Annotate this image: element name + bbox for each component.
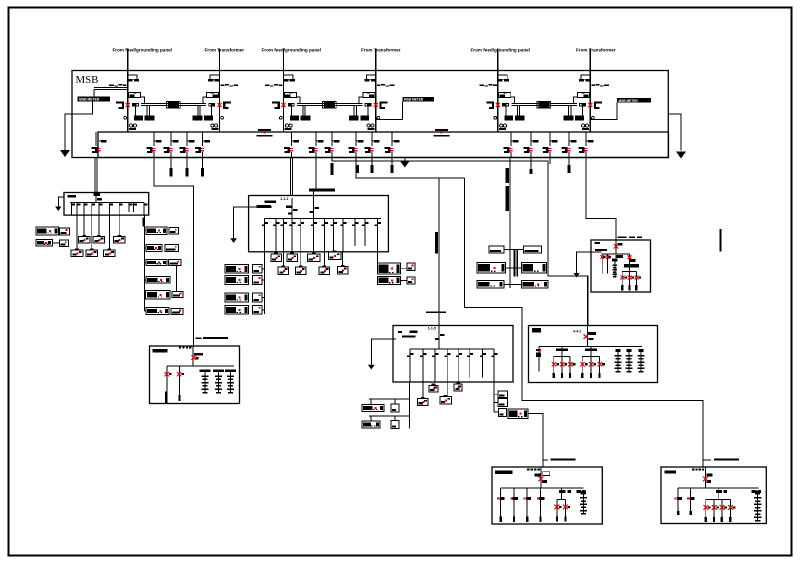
LP-F branch 1 <box>165 366 172 403</box>
LP-F incomer detail <box>193 346 203 366</box>
wire DB-A drop 6 <box>108 215 110 250</box>
lighting panel box R3 <box>146 260 167 266</box>
busway riser mark right <box>719 229 721 252</box>
DB-E fork <box>620 268 641 291</box>
label From Transformer 1 <box>205 48 245 53</box>
svg-text:From Transformer: From Transformer <box>361 48 401 53</box>
wire route to DB-C and DB-H <box>356 158 465 179</box>
DB-E right tap redx <box>628 255 632 259</box>
svg-text:4-4-2: 4-4-2 <box>573 330 581 334</box>
LP-F ladder 3 <box>225 369 236 393</box>
wire DB-B left spine <box>264 252 266 314</box>
wire C drop 422 <box>422 382 424 399</box>
DB-H incomer detail <box>705 467 712 488</box>
feeder wire stub 2 <box>153 132 155 158</box>
feeder breaker x511 <box>504 140 519 153</box>
wire C branch row1 <box>369 399 410 405</box>
DB-B branch breaker 3 <box>281 218 287 252</box>
metering label block 3 <box>617 98 651 103</box>
wire spine stub 3 <box>145 262 147 264</box>
panel box BL3a <box>252 293 262 302</box>
feeder breaker x356 <box>349 140 364 153</box>
feeder breaker x550 <box>543 140 558 153</box>
DB-G label above <box>551 459 576 461</box>
cable mark spare 1 <box>169 168 172 177</box>
DB-C left earth arrow <box>368 365 375 370</box>
switch box CR1 <box>498 391 508 398</box>
feeder breaker DB-A <box>92 140 107 153</box>
svg-text:MSB METER: MSB METER <box>404 98 424 102</box>
panel box BR1a <box>407 263 415 270</box>
spare feeder wire 2 <box>186 132 188 168</box>
spare feeder breaker 2 <box>180 140 195 153</box>
wire DB-A drop 5 <box>91 215 93 250</box>
DB-C branch breaker 3 <box>432 349 438 382</box>
lighting panel LP-F enclosure <box>150 346 240 404</box>
DB-D feeder ladder 2 <box>625 349 632 372</box>
distribution board DB-B enclosure <box>249 196 389 252</box>
bus section link 2 <box>434 129 450 137</box>
feeder wire x332 <box>331 132 333 158</box>
wire branch to DB-C <box>438 178 440 326</box>
transformer panel T5 <box>477 281 504 288</box>
MSB right feeder wire <box>668 114 681 151</box>
DB-A incomer detail <box>94 193 103 202</box>
DB-A branch breaker 6 <box>109 203 113 216</box>
DB-H ladder blobs <box>752 490 761 493</box>
DB-H label above <box>714 459 739 461</box>
DB-G incomer redx <box>539 477 544 482</box>
DB-A internal bus <box>70 202 144 204</box>
DB-A left earth arrow <box>55 207 61 212</box>
spare feeder arrow wire <box>404 158 406 162</box>
DB-G ladder blobs <box>576 490 585 493</box>
DB-B meter label block <box>309 189 335 192</box>
feeder wire x291.5 <box>291 132 293 158</box>
cable mark spare 2 <box>185 168 188 177</box>
DB-G fork blobs <box>559 490 571 493</box>
DB-C branch breaker 6 <box>467 349 473 378</box>
cable mark 372 <box>370 165 373 173</box>
feeder wire x531 <box>530 132 532 158</box>
DB-B branch breaker 7 <box>322 218 328 252</box>
MCC box B8 <box>337 265 347 274</box>
bus tie link 2 <box>297 101 362 108</box>
DB-H name label <box>665 470 676 473</box>
transformer box T2 <box>524 246 542 253</box>
main bus section MSB <box>98 132 669 158</box>
label From feed/grounding panel 3 <box>471 48 530 53</box>
DB-B left earth arrow <box>230 238 237 243</box>
label From feed/grounding panel 1 <box>113 48 172 53</box>
DB-D incomer redx <box>584 334 589 339</box>
panel box BL2 <box>225 276 249 285</box>
panel box BR2a <box>407 277 415 284</box>
DB-D title text <box>573 330 596 335</box>
feeder breaker x586 <box>579 140 594 153</box>
DB-C incomer detail <box>435 326 445 349</box>
wire route to DB-D <box>332 158 588 326</box>
DB-C branch breaker 1 <box>407 349 413 382</box>
feeder breaker x291.5 <box>284 140 299 153</box>
distribution board DB-A enclosure <box>64 193 149 216</box>
label MSB <box>76 74 99 86</box>
feeder wire x550 <box>549 132 551 158</box>
DB-E name label <box>594 242 600 244</box>
wire route to DB-G <box>528 414 543 468</box>
DB-H branch 1 <box>675 488 683 515</box>
DB-A branch breaker 3 <box>84 203 88 216</box>
wire spine stub 1 <box>145 230 147 232</box>
feeder wire x511 <box>510 132 512 158</box>
DB-B branch breaker 6 <box>311 218 317 252</box>
bus tie link 3 <box>511 101 577 108</box>
spare stub 372 <box>371 158 373 165</box>
transformer group spine <box>509 246 511 288</box>
wire T row2 <box>506 267 522 269</box>
MCC box C3 <box>417 397 428 405</box>
lighting panel box R1 <box>146 227 167 234</box>
DB-C name label <box>398 331 418 338</box>
DB-C internal bus <box>410 348 494 350</box>
wire route to LP-F <box>154 158 194 347</box>
transformer box T1 <box>489 246 504 253</box>
DB-G branch 2 <box>510 488 518 522</box>
DB-D feeder ladder 1 <box>614 349 621 372</box>
DB-D name label <box>532 328 541 333</box>
transformer core bars <box>514 250 519 276</box>
cable mark 569 <box>567 158 570 174</box>
MCC box B3 <box>307 253 320 262</box>
DB-B left earth wire <box>234 207 272 239</box>
DB-D left branch dot <box>539 350 541 352</box>
DB-H branch 2 <box>687 488 695 515</box>
svg-text:From feed/grounding panel: From feed/grounding panel <box>113 48 172 53</box>
feeder wire x316 <box>315 132 317 158</box>
DB-H internal bus <box>678 487 759 489</box>
DB-A branch breaker 5 <box>99 203 103 216</box>
wire DB-B drop 8 <box>342 252 344 267</box>
panel box L2a <box>59 240 68 246</box>
DB-B branch breaker 10 <box>352 218 358 246</box>
DB-A branch breaker 10 <box>144 203 148 216</box>
DB-A branch breaker 4 <box>92 203 96 216</box>
spare feeder breaker 1 <box>164 140 179 153</box>
incoming breaker Q5 (feed/grounding panel 3) <box>479 49 524 133</box>
MCC box C4 <box>440 395 452 404</box>
wire C drop 447 <box>446 382 448 397</box>
LP-F internal bus <box>167 365 234 367</box>
LP-F ladder 1 <box>200 369 211 393</box>
MCC box B7 <box>319 265 329 274</box>
svg-text:From Transformer: From Transformer <box>576 48 616 53</box>
busway riser mark DB-C <box>435 232 438 253</box>
DB-G branch 1 <box>497 488 505 522</box>
panel box L2 <box>36 240 52 247</box>
DB-A branch breaker 8 <box>129 203 133 213</box>
LP-F branch 2 <box>177 366 184 401</box>
svg-text:From Transformer: From Transformer <box>205 48 245 53</box>
DB-B branch breaker 5 <box>298 218 304 252</box>
panel box BL3 <box>225 293 249 302</box>
DB-E right tap <box>630 254 636 264</box>
DB-E internal bus <box>602 253 631 255</box>
DB-E label above <box>618 237 643 238</box>
cable mark 531 <box>529 158 532 175</box>
feeder breaker x372 <box>365 140 380 153</box>
DB-E label bar <box>595 249 607 251</box>
DB-G top ticks <box>527 468 540 470</box>
DB-D transformer fork 2 <box>580 346 605 378</box>
DB-E left earth wire <box>577 252 602 273</box>
lighting panel box R6a <box>171 308 183 314</box>
busway riser mark T2 <box>505 186 509 211</box>
incoming breaker Q2 (transformer 1) <box>193 49 238 133</box>
spare stub 550 <box>549 158 551 165</box>
DB-B branch breaker 1 <box>262 218 268 252</box>
wire spine stub 5 <box>145 294 146 296</box>
DB-D transformer fork 1 <box>552 346 576 378</box>
DB-B branch breaker 2 <box>273 218 279 252</box>
DB-C branch breaker 4 <box>444 349 450 382</box>
wire BL stub 1 <box>262 268 265 270</box>
MCC box A5 <box>86 248 98 256</box>
incoming breaker Q1 (feed/grounding panel 1) <box>109 49 154 133</box>
DB-E ladder <box>612 259 617 278</box>
MCC box A4 <box>71 248 83 256</box>
DB-E branch 1 <box>601 254 606 274</box>
DB-H top ticks <box>692 468 704 470</box>
DB-B branch breaker 12 <box>375 218 381 252</box>
metering label block 2 <box>403 97 435 102</box>
DB-A branch breaker 7 <box>119 203 123 216</box>
wire R3-R5 link <box>175 266 177 292</box>
MCC box B1 <box>271 253 282 262</box>
incoming breaker Q4 (transformer 2) <box>349 49 394 133</box>
DB-B branch breaker 11 <box>362 218 368 246</box>
MSB switchboard enclosure <box>72 71 668 158</box>
wire BL stub 4 <box>262 309 265 311</box>
feeder breaker x569 <box>562 140 577 153</box>
DB-E incomer redx <box>614 244 618 248</box>
distribution board DB-E enclosure <box>591 240 651 292</box>
DB-G wire jog <box>543 459 548 461</box>
lighting panel box R6 <box>146 308 169 315</box>
wire label2 to feeder <box>376 101 403 119</box>
DB-B incomer detail <box>286 198 298 218</box>
DB-E left earth arrow <box>573 273 579 278</box>
MCC box B6 <box>296 265 306 274</box>
svg-text:MSB METER: MSB METER <box>79 98 100 102</box>
wire DB-A drop 4 <box>76 215 78 250</box>
DB-C left earth wire <box>371 339 396 365</box>
DB-G ladder <box>580 491 587 514</box>
panel box BR2 <box>378 276 401 284</box>
panel box BL4 <box>225 306 249 315</box>
lighting panel box R2a <box>165 245 179 252</box>
lighting panel box R1a <box>169 228 179 235</box>
DB-B title text <box>280 197 288 201</box>
transformer panel T3 <box>477 263 506 274</box>
wire DB-C left spine <box>409 382 411 429</box>
wire route to DB-H part2 <box>465 178 703 467</box>
DB-C branch breaker 7 <box>480 349 486 378</box>
lighting panel DB-H enclosure <box>661 467 766 524</box>
incoming breaker Q6 (transformer 3) <box>564 49 609 133</box>
wire meter to DB-B <box>313 192 315 196</box>
spare feeder wire 1 <box>170 132 172 168</box>
MCC box A2 <box>93 235 105 243</box>
wire BR link <box>401 269 408 281</box>
feeder breaker x531 <box>524 140 539 153</box>
DB-D feeder ladder 3 <box>637 349 644 372</box>
lighting panel box R4 <box>146 277 170 284</box>
spare feeder breaker 3 <box>195 140 210 153</box>
wire route to DB-B (double) <box>290 158 292 196</box>
wire spine stub 4 <box>145 279 147 281</box>
MCC box A1 <box>78 235 90 243</box>
panel box BR1 <box>378 263 401 274</box>
LP-F ladder 2 <box>213 369 224 393</box>
wire BL stub 3 <box>262 296 265 298</box>
DB-B branch breaker 4 <box>289 218 295 252</box>
wire DB-B drop 5 <box>282 252 284 267</box>
panel box CR4 <box>508 409 528 419</box>
wire DB-C right spine <box>494 382 498 412</box>
cable mark 356 <box>355 165 358 173</box>
wire spine stub 2 <box>145 247 147 249</box>
feeder breaker x316 <box>309 140 324 153</box>
DB-A branch breaker 2 <box>77 203 81 216</box>
svg-text:1-1-1: 1-1-1 <box>280 197 288 201</box>
feeder breaker x392 <box>385 140 400 153</box>
wire DB-B drop 12 ext <box>377 252 379 263</box>
distribution board DB-D enclosure <box>529 326 658 383</box>
panel box CL2 <box>362 421 380 428</box>
svg-text:From feed/grounding panel: From feed/grounding panel <box>471 48 530 53</box>
LP-F label above <box>196 337 229 339</box>
MCC box C2 <box>454 383 462 392</box>
DB-E branch 2 <box>606 254 611 274</box>
LP-F name label <box>152 349 167 352</box>
transformer panel T4 <box>521 263 546 274</box>
feeder breaker to LP-F <box>147 140 162 153</box>
wire route to DB-E <box>586 158 616 255</box>
lighting panel box R5 <box>146 291 170 299</box>
wire DB-B drop 6 <box>300 252 302 267</box>
wire C branch row2 <box>369 416 410 421</box>
lighting panel box R3a <box>169 260 182 266</box>
cable mark route D <box>331 163 334 175</box>
panel box L1 <box>36 227 59 235</box>
MSB left earth arrow <box>60 150 70 157</box>
DB-C branch breaker 8 <box>491 349 497 382</box>
DB-E incomer <box>616 240 623 254</box>
incoming breaker Q3 (feed/grounding panel 2) <box>265 49 310 133</box>
DB-D internal bus <box>539 345 642 347</box>
panel box L1a <box>60 228 70 235</box>
DB-B internal bus <box>265 217 381 219</box>
DB-A left earth wire <box>58 197 64 207</box>
DB-C title text <box>428 326 436 330</box>
DB-B incomer2 detail <box>310 196 320 219</box>
DB-G incomer detail <box>535 467 550 488</box>
feeder breaker x332 <box>325 140 340 153</box>
feeder wire x372 <box>371 132 373 158</box>
MCC box A3 <box>113 235 125 243</box>
MCC box A6 <box>104 248 116 256</box>
wire DB-A drop 3 <box>118 215 120 236</box>
panel box BL1a <box>252 265 262 274</box>
wire DB-B drop 7 <box>323 252 325 267</box>
cable mark spare 3 <box>201 168 204 177</box>
svg-text:From feed/grounding panel: From feed/grounding panel <box>262 48 321 53</box>
wire DB-A right spine <box>144 215 146 311</box>
lighting panel box R2 <box>146 245 162 252</box>
lighting panel DB-G enclosure <box>492 467 602 524</box>
MCC box C1 <box>429 384 438 392</box>
spare feeder wire 3 <box>202 132 204 168</box>
feeder wire x356 <box>355 132 357 158</box>
MSB right feeder arrow <box>676 152 686 159</box>
transformer panel T6 <box>521 281 548 288</box>
DB-E transformer bar <box>624 264 639 267</box>
label From feed/grounding panel 2 <box>262 48 321 53</box>
svg-text:MSB: MSB <box>76 74 99 86</box>
panel box BL4a <box>252 306 262 315</box>
label From Transformer 2 <box>361 48 401 53</box>
feeder wire to DB-A (double) <box>95 132 97 193</box>
DB-H fork blobs <box>716 490 727 493</box>
DB-C feeder tag <box>426 312 446 314</box>
MSB left earth wire <box>65 102 93 151</box>
wire to transformer group <box>509 158 511 247</box>
lighting panel box R5a <box>172 291 183 297</box>
panel box BL1 <box>225 265 249 274</box>
wire DB-A drop 2 <box>98 215 100 236</box>
DB-E bus blob <box>616 255 623 258</box>
cable mark spine A <box>142 217 145 226</box>
LP-F incomer redx <box>191 355 195 359</box>
switch box CR3 <box>499 409 507 417</box>
bus tie link 1 <box>141 101 206 108</box>
feeder wire x392 <box>391 132 393 158</box>
DB-H fork <box>704 488 736 522</box>
wire label3 to feeder <box>590 103 617 120</box>
MCC box B4 <box>328 251 341 260</box>
svg-text:MSB METER: MSB METER <box>619 99 639 103</box>
DB-B branch breaker 9 <box>340 218 346 252</box>
DB-B branch breaker 8 <box>331 218 337 252</box>
wire L-boxes <box>52 231 59 243</box>
DB-D left branch <box>536 346 541 371</box>
MCC box B5 <box>278 265 288 274</box>
DB-H incomer redx <box>703 477 708 482</box>
label From Transformer 3 <box>576 48 616 53</box>
DB-C branch breaker 2 <box>420 349 426 382</box>
wire feeder to DB-B meter <box>315 158 317 189</box>
wire T row1 <box>504 249 524 251</box>
DB-A branch breaker 1 <box>71 203 75 216</box>
DB-G branch 4 <box>537 488 545 522</box>
DB-C branch breaker 5 <box>456 349 462 382</box>
feeder wire x586 <box>585 132 587 158</box>
wire label1 to feeder <box>94 88 128 97</box>
cable mark 392 <box>390 165 393 173</box>
MCC box B2 <box>287 253 298 262</box>
DB-D incomer detail <box>588 326 594 347</box>
metering label block 1 <box>78 97 111 102</box>
